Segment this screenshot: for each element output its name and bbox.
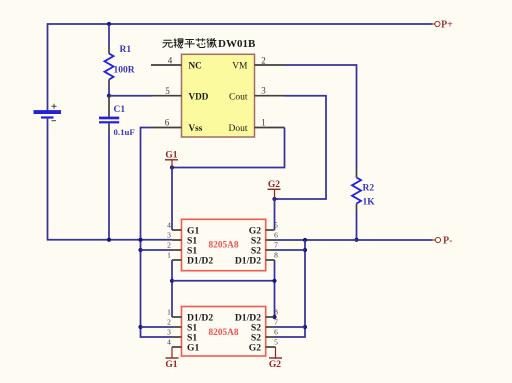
wire D net right vertical [274,260,276,317]
pin 1 stub lower D1/D2 [172,316,182,318]
svg-text:G1: G1 [165,151,177,161]
node junction D right [272,279,276,283]
svg-text:3: 3 [261,86,266,96]
pin 7 stub lower S2 [266,326,275,328]
svg-text:100R: 100R [114,66,135,76]
svg-text:3: 3 [167,328,171,337]
svg-text:NC: NC [189,61,202,71]
wire Vss net [141,128,173,338]
svg-text:2: 2 [167,318,171,327]
power port G1 bottom [165,347,178,370]
svg-text:6: 6 [274,328,278,337]
node junction S2 rail [303,238,307,242]
svg-text:4: 4 [167,221,171,230]
power port G2 bottom [269,347,282,370]
svg-text:R2: R2 [363,184,375,194]
pin 5 stub lower G2 [266,346,276,348]
power port G2 top [268,180,281,199]
svg-text:0.1uF: 0.1uF [114,127,135,137]
svg-text:8205A8: 8205A8 [209,328,239,338]
node junction Vss rail 327 [138,325,142,329]
pin 4 stub upper G1 [172,229,182,231]
pin 4 NC stub [151,64,182,66]
node junction D left [170,279,174,283]
wire D net left vertical [171,260,173,317]
pin 6 stub upper S2 [266,239,275,241]
battery BT1 [34,104,62,121]
svg-text:Cout: Cout [229,93,248,103]
node junction top at R1 [107,22,111,26]
svg-text:G2: G2 [269,360,281,370]
svg-text:VDD: VDD [189,92,209,102]
wire VDD to pin 5 [109,95,152,97]
pin 2 VM stub [255,64,285,66]
pin 2 stub upper S1 [172,249,182,251]
power port G1 top [165,151,178,168]
svg-text:DW01B: DW01B [218,38,256,50]
capacitor C1 [99,96,119,240]
svg-text:5: 5 [274,338,278,347]
node junction R2 bottom [354,238,358,242]
wire S1 pin2 lower [141,326,173,328]
pin 3 stub upper S1 [172,239,182,241]
svg-text:1: 1 [167,308,171,317]
wire battery negative down-left rail [48,119,173,240]
svg-text:G2: G2 [268,180,280,190]
node junction Vss rail 240 [138,238,142,242]
wire P- rail [275,239,433,241]
svg-text:6: 6 [274,231,278,240]
label title Chinese 无锡平芯微 [163,38,217,48]
node junction D pin8 lower [272,315,276,319]
svg-text:7: 7 [274,241,278,250]
svg-text:8: 8 [274,251,278,260]
pin 4 stub lower G1 [172,346,182,348]
op-amp U1 DW01B body [182,54,255,137]
wire Cout net to G2 [275,96,327,199]
svg-text:4: 4 [168,56,173,66]
svg-text:5: 5 [165,86,170,96]
svg-text:P+: P+ [441,20,453,31]
svg-text:VM: VM [232,62,248,72]
wire S1 pin2 upper [141,249,173,251]
pin 7 stub upper S2 [266,249,275,251]
svg-text:4: 4 [167,338,171,347]
svg-text:5: 5 [274,221,278,230]
pin 2 stub lower S1 [172,326,182,328]
pin 8 stub upper D1/D2 [266,259,275,261]
svg-text:1: 1 [261,117,266,127]
pin 5 stub upper G2 [266,229,275,231]
svg-text:Vss: Vss [189,123,203,133]
terminal P+ [432,20,454,31]
pin 3 Cout stub [255,95,285,97]
svg-text:8: 8 [274,308,278,317]
node junction S2 327 [303,325,307,329]
pin 1 Dout stub [255,127,285,129]
svg-text:R1: R1 [120,45,132,55]
svg-text:3: 3 [167,231,171,240]
node junction Vss rail 250 [138,248,142,252]
pin 3 stub lower S1 [172,336,182,338]
wire P+ top rail [48,24,433,111]
terminal P- [432,236,452,247]
transistor U3 8205A8 lower body [182,307,266,357]
node VDD junction [107,94,111,98]
svg-text:8205A8: 8205A8 [209,241,239,251]
svg-text:2: 2 [167,241,171,250]
svg-text:P-: P- [443,236,452,247]
wire G2 net to pin5 upper [274,199,276,230]
svg-text:7: 7 [274,318,278,327]
node junction G1 [170,165,174,169]
node junction C1 bottom rail [107,238,111,242]
pin 6 stub lower S2 [266,336,275,338]
pin 1 stub upper D1/D2 [172,259,182,261]
svg-text:6: 6 [165,117,170,127]
svg-text:D1/D2: D1/D2 [187,255,213,266]
wire pin7 upper to S2 [275,249,306,251]
svg-text:G2: G2 [249,342,261,353]
wire S2 vertical [275,240,306,337]
node junction S2 250 [303,248,307,252]
wire VM net to R2 [285,65,357,170]
svg-text:C1: C1 [114,105,126,115]
pin 5 VDD stub [152,95,182,97]
svg-text:G1: G1 [187,342,199,353]
svg-text:D1/D2: D1/D2 [235,255,261,266]
pin 6 Vss stub [152,127,182,129]
transistor U2 8205A8 upper body [182,219,266,270]
wire D net horizontal [172,280,275,282]
node junction G2 [272,197,276,201]
wire Dout net to G1 [172,128,285,168]
svg-text:G1: G1 [165,360,177,370]
svg-text:2: 2 [261,56,266,66]
resistor R1 [105,24,114,96]
resistor R2 [352,170,361,240]
wire pin7 lower to S2 [275,326,306,328]
svg-text:Dout: Dout [229,124,248,134]
pin 8 stub lower D1/D2 [266,316,275,318]
wire G1 net to pin4 upper [171,168,173,231]
svg-text:1: 1 [167,251,171,260]
svg-text:1K: 1K [363,198,376,208]
